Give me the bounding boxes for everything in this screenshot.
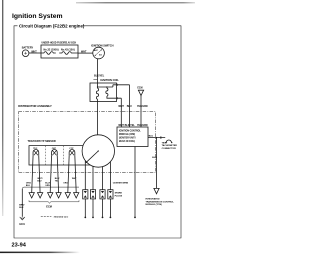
svg-text:: Shielded wire: : Shielded wire bbox=[53, 217, 69, 219]
wire battery to fuse box bbox=[29, 52, 41, 54]
wire ignition switch down, BLK/YEL bbox=[97, 59, 99, 83]
svg-text:BLU: BLU bbox=[26, 185, 31, 187]
wire fuse box to ignition switch bbox=[78, 52, 93, 54]
ignition wires from cap to spark plugs bbox=[85, 161, 110, 190]
svg-text:BLK/YEL: BLK/YEL bbox=[94, 74, 105, 77]
svg-text:PLUGS: PLUGS bbox=[115, 195, 123, 197]
spark plug 1 bbox=[83, 190, 88, 219]
svg-text:IG1: IG1 bbox=[99, 54, 102, 56]
svg-text:DISTRIBUTOR ASSEMBLY: DISTRIBUTOR ASSEMBLY bbox=[18, 104, 52, 108]
svg-text:WHT: WHT bbox=[31, 50, 37, 53]
sensor box bbox=[29, 146, 90, 165]
ECM connector 3 (triangle) bbox=[47, 193, 53, 198]
svg-text:TDC/CKP/CYP SENSOR: TDC/CKP/CYP SENSOR bbox=[28, 140, 56, 143]
spark plug 3 bbox=[100, 190, 105, 219]
ignition control module ICM box bbox=[117, 127, 148, 147]
shield drain wire bbox=[21, 189, 23, 217]
svg-text:CENTER WIRE: CENTER WIRE bbox=[113, 183, 129, 185]
svg-text:WHT: WHT bbox=[72, 178, 77, 180]
wire ICM to test tachometer connector, BLU bbox=[148, 137, 165, 139]
svg-text:MODULE (TCM): MODULE (TCM) bbox=[146, 204, 163, 206]
section bracket frame bbox=[14, 26, 181, 238]
svg-text:IGNITION COIL: IGNITION COIL bbox=[100, 78, 119, 82]
coil B terminal wire out right bottom bbox=[107, 96, 121, 98]
wire coil secondary to distributor bbox=[97, 99, 99, 135]
svg-text:INTEGRATED: INTEGRATED bbox=[146, 198, 160, 201]
svg-text:MODULE (ICM): MODULE (ICM) bbox=[119, 134, 135, 136]
wire junction down to tachometer, BLU bbox=[156, 138, 158, 189]
svg-text:Ignition System: Ignition System bbox=[12, 13, 63, 20]
test tachometer connector hook bbox=[161, 136, 173, 142]
ECM connector 2 (triangle) bbox=[37, 193, 43, 198]
junction node bbox=[156, 137, 157, 138]
wire coil B to ICM, WHT bbox=[120, 98, 122, 127]
svg-text:ECM: ECM bbox=[137, 88, 142, 90]
rotor arm bbox=[86, 151, 98, 162]
ECM connector 1 (triangle) bbox=[29, 193, 35, 198]
svg-text:BLU: BLU bbox=[37, 181, 42, 183]
svg-text:BLU: BLU bbox=[149, 136, 154, 138]
coil internal top wire with junctions bbox=[98, 83, 107, 88]
svg-text:UNDER-HOOD FUSE/RELAY BOX: UNDER-HOOD FUSE/RELAY BOX bbox=[42, 42, 77, 45]
ECM connector 4 (triangle) bbox=[56, 193, 62, 198]
ignition coil box bbox=[90, 83, 117, 102]
sensor wires down bbox=[32, 156, 76, 193]
svg-text:BLU: BLU bbox=[127, 105, 132, 108]
svg-text:No.32 (100A): No.32 (100A) bbox=[44, 48, 59, 51]
svg-text:BUILT-IN COIL): BUILT-IN COIL) bbox=[119, 141, 135, 143]
svg-text:ECM: ECM bbox=[46, 206, 52, 209]
svg-text:WHT: WHT bbox=[118, 105, 124, 108]
svg-text:IGNITION CONTROL: IGNITION CONTROL bbox=[119, 130, 141, 132]
svg-text:YEL/GRN: YEL/GRN bbox=[137, 105, 148, 108]
svg-text:No.43 (15A): No.43 (15A) bbox=[61, 48, 75, 51]
svg-text:ORG: ORG bbox=[63, 183, 68, 185]
svg-text:23-94: 23-94 bbox=[12, 243, 27, 249]
spark plug 4 bbox=[108, 190, 113, 219]
svg-text:BATTERY: BATTERY bbox=[22, 47, 34, 50]
footer rule bbox=[0, 252, 80, 254]
svg-text:TRANSMISSION CONTROL: TRANSMISSION CONTROL bbox=[146, 200, 175, 203]
spark plug 2 bbox=[90, 190, 95, 219]
ground G101 bbox=[20, 217, 25, 220]
connector to TCM (triangle) bbox=[153, 188, 159, 193]
scan artifact top edge bbox=[76, 2, 195, 3]
legend shielded wire bbox=[41, 216, 52, 218]
svg-text:WHT: WHT bbox=[81, 50, 87, 53]
svg-text:CONNECTOR: CONNECTOR bbox=[162, 148, 176, 150]
coil primary winding bbox=[96, 88, 98, 99]
coil secondary winding bbox=[106, 88, 108, 96]
svg-text:IGNITION SWITCH: IGNITION SWITCH bbox=[91, 43, 114, 47]
svg-text:TACHOMETER: TACHOMETER bbox=[162, 144, 178, 147]
svg-text:GRN: GRN bbox=[45, 185, 50, 187]
center wire from ICM down bbox=[134, 147, 136, 218]
svg-text:BLK: BLK bbox=[19, 207, 24, 209]
svg-text:TEST: TEST bbox=[162, 142, 168, 144]
ECM bracket bbox=[29, 200, 79, 203]
ECM connector 6 (triangle) bbox=[73, 193, 79, 198]
svg-text:(IGNITER UNIT /: (IGNITER UNIT / bbox=[119, 137, 136, 139]
svg-text:G101: G101 bbox=[19, 224, 25, 226]
scan artifact left edge bbox=[2, 0, 3, 216]
shield line bbox=[22, 187, 79, 189]
terminal tick A bbox=[93, 78, 97, 80]
distributor cap circle bbox=[82, 135, 114, 167]
svg-text:BLU: BLU bbox=[152, 157, 157, 159]
svg-text:Circuit Diagram (F22B2 engine): Circuit Diagram (F22B2 engine) bbox=[19, 24, 85, 29]
wire coil A to ICM, BLK/YEL bbox=[129, 85, 131, 127]
coil A terminal wire out right top bbox=[107, 85, 130, 87]
wire ECM connector to ICM, YEL/GRN bbox=[140, 95, 142, 127]
svg-text:SPARK: SPARK bbox=[115, 191, 123, 194]
dashed separators bbox=[46, 146, 64, 165]
ECM connector 5 (triangle) bbox=[65, 193, 71, 198]
